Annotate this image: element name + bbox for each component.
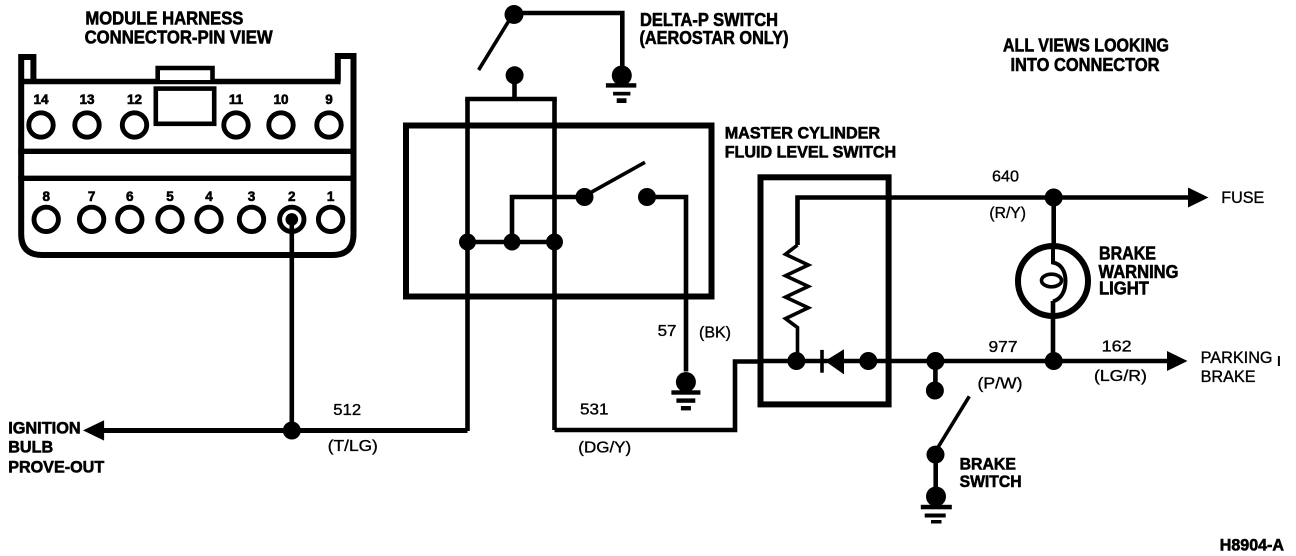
svg-text:PROVE-OUT: PROVE-OUT xyxy=(8,457,105,476)
diode D1 xyxy=(820,350,824,373)
pin 13 xyxy=(75,113,99,137)
junction dot F xyxy=(283,422,301,440)
pin 11 xyxy=(224,113,248,137)
wire bus inside U1 xyxy=(468,240,555,245)
connector J1 MODULE HARNESS outline xyxy=(19,56,354,255)
pin 12 xyxy=(122,113,146,137)
arrow to FUSE xyxy=(1188,188,1209,208)
pin 14 xyxy=(29,113,53,137)
wire from pin 2 down xyxy=(289,219,294,430)
delta-P switch contact dot lower xyxy=(506,66,524,84)
svg-text:13: 13 xyxy=(79,92,95,107)
pin 2 xyxy=(280,207,304,231)
pin 8 xyxy=(34,207,58,231)
brake switch S3 contact dot lower xyxy=(927,446,945,464)
brake switch S3 contact dot upper xyxy=(926,382,944,400)
svg-text:PARKING: PARKING xyxy=(1201,348,1273,367)
wire 57 from switch to ground xyxy=(647,197,686,372)
wire bottom bus inside U2 xyxy=(761,359,889,364)
ground G1 (delta-P) xyxy=(606,66,636,104)
svg-text:(P/W): (P/W) xyxy=(978,376,1023,393)
small box top edge above U1 xyxy=(465,97,557,102)
svg-text:MODULE HARNESS: MODULE HARNESS xyxy=(85,8,243,28)
svg-text:977: 977 xyxy=(989,339,1018,356)
wire from bulb down to 977 line xyxy=(1051,301,1056,361)
junction dot C xyxy=(546,234,563,251)
pin 9 xyxy=(317,113,341,137)
delta-P switch S1 contact dot upper xyxy=(505,5,524,24)
svg-text:(T/LG): (T/LG) xyxy=(328,438,378,455)
svg-text:531: 531 xyxy=(580,402,609,419)
pin 4 xyxy=(197,207,221,231)
connector key slot xyxy=(156,89,214,124)
wire from 640 down to bulb xyxy=(1051,198,1056,249)
svg-text:4: 4 xyxy=(205,189,213,204)
svg-text:FLUID LEVEL SWITCH: FLUID LEVEL SWITCH xyxy=(725,142,897,161)
wire vertical right (531 feed) xyxy=(552,99,557,430)
svg-text:5: 5 xyxy=(166,189,174,204)
svg-text:BRAKE: BRAKE xyxy=(1201,367,1256,386)
svg-text:LIGHT: LIGHT xyxy=(1099,279,1149,299)
wire 531 from U1 to U2 xyxy=(555,362,761,431)
brake warning light bulb L1 xyxy=(1018,246,1088,316)
junction dot B xyxy=(504,234,521,251)
svg-text:9: 9 xyxy=(325,92,333,107)
pin 1 xyxy=(318,207,342,231)
svg-text:14: 14 xyxy=(33,92,49,107)
pin 2 connection dot xyxy=(286,213,299,226)
svg-text:DELTA-P SWITCH: DELTA-P SWITCH xyxy=(640,10,778,30)
svg-text:12: 12 xyxy=(127,92,142,107)
master cylinder fluid level switch box U2 xyxy=(761,177,889,404)
wire vertical left (512 feed) xyxy=(465,99,470,431)
connector divider line lower xyxy=(18,176,356,181)
svg-text:640: 640 xyxy=(992,168,1019,185)
pin 7 xyxy=(79,207,103,231)
junction dot G xyxy=(1045,189,1063,207)
brake switch S3 stub wire xyxy=(933,361,938,386)
svg-text:INTO CONNECTOR: INTO CONNECTOR xyxy=(1011,55,1160,75)
resistor R1 xyxy=(786,245,809,361)
arrow to PARKING BRAKE xyxy=(1167,351,1188,371)
wire 640 from resistor to FUSE arrow xyxy=(798,198,1189,246)
ground G3 (brake switch) xyxy=(921,487,952,524)
brake switch S3 arm xyxy=(938,396,969,447)
arrow to ignition bulb prove-out xyxy=(83,420,104,440)
svg-text:BRAKE: BRAKE xyxy=(1099,244,1156,264)
svg-text:IGNITION: IGNITION xyxy=(8,419,81,438)
switch S2 arm xyxy=(589,162,645,193)
connector divider line upper xyxy=(18,149,356,154)
svg-text:6: 6 xyxy=(126,189,134,204)
svg-text:SWITCH: SWITCH xyxy=(960,472,1022,491)
svg-text:1: 1 xyxy=(327,189,335,204)
svg-text:(DG/Y): (DG/Y) xyxy=(578,440,631,457)
svg-text:162: 162 xyxy=(1102,339,1132,356)
svg-text:(BK): (BK) xyxy=(699,325,731,342)
svg-text:3: 3 xyxy=(248,189,256,204)
svg-text:CONNECTOR-PIN VIEW: CONNECTOR-PIN VIEW xyxy=(85,28,273,48)
junction dot H xyxy=(926,352,944,370)
svg-text:(R/Y): (R/Y) xyxy=(989,205,1026,222)
wire stub from delta-P switch to box xyxy=(512,75,517,99)
wire from brake switch to ground xyxy=(933,455,938,488)
svg-text:MASTER CYLINDER: MASTER CYLINDER xyxy=(725,124,880,143)
connector center latch tab xyxy=(158,68,213,80)
stray tick after PARKING xyxy=(1278,356,1280,366)
svg-text:8: 8 xyxy=(42,189,50,204)
junction dot E xyxy=(859,352,877,370)
svg-text:(AEROSTAR ONLY): (AEROSTAR ONLY) xyxy=(640,28,789,48)
ground G2 (wire 57) xyxy=(671,372,700,410)
wire 512 horizontal to ignition arrow xyxy=(103,428,468,433)
svg-text:7: 7 xyxy=(88,189,96,204)
pin 5 xyxy=(158,207,182,231)
svg-text:(LG/R): (LG/R) xyxy=(1094,368,1147,385)
junction dot D xyxy=(787,352,805,370)
pin 3 xyxy=(239,207,263,231)
svg-text:FUSE: FUSE xyxy=(1221,188,1264,207)
switch S2 contact dot right xyxy=(638,188,656,206)
delta-P switch arm xyxy=(479,19,510,70)
svg-text:11: 11 xyxy=(229,92,244,107)
wire from bus to switch contact xyxy=(512,197,584,242)
pin 6 xyxy=(118,207,142,231)
svg-text:ALL VIEWS LOOKING: ALL VIEWS LOOKING xyxy=(1003,36,1169,56)
svg-text:57: 57 xyxy=(658,323,677,340)
wire from delta-P switch to ground xyxy=(514,13,622,66)
junction dot I xyxy=(1045,352,1063,370)
svg-text:512: 512 xyxy=(333,402,361,419)
switch assembly box U1 xyxy=(406,126,712,297)
svg-text:H8904-A: H8904-A xyxy=(1220,536,1284,555)
svg-text:BULB: BULB xyxy=(8,437,53,456)
svg-text:10: 10 xyxy=(273,92,288,107)
svg-text:2: 2 xyxy=(288,189,296,204)
svg-text:BRAKE: BRAKE xyxy=(960,455,1016,474)
pin 10 xyxy=(269,113,293,137)
wire 977/162 horizontal xyxy=(889,359,1167,364)
switch S2 contact dot left xyxy=(576,188,594,206)
junction dot A xyxy=(459,234,476,251)
